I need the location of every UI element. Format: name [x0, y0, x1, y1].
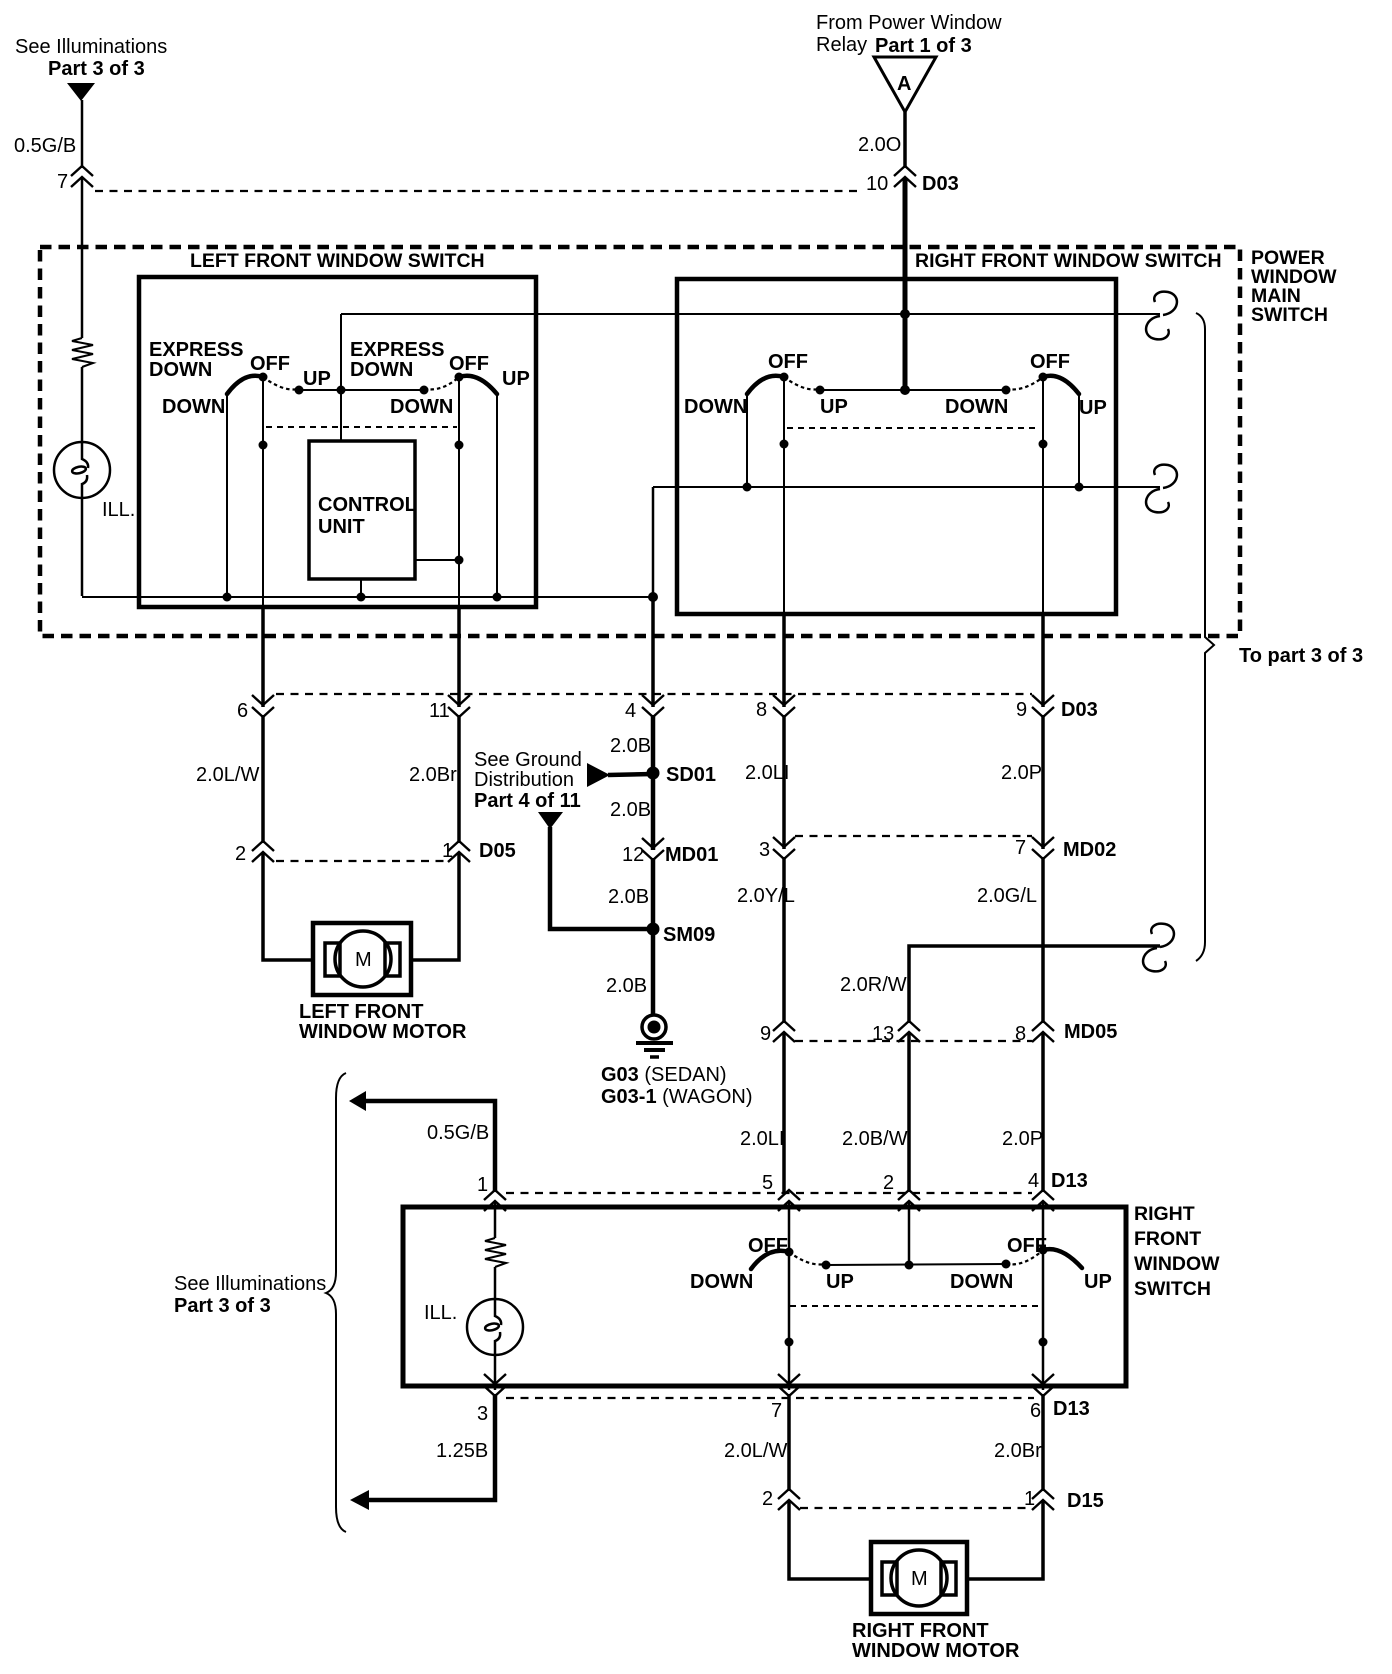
connector pin 1 (lower box) [477, 1174, 506, 1211]
wire 0.5G/B from illuminations arrow [81, 100, 84, 168]
wire between SW1 and SW2 contacts [299, 389, 424, 391]
dashed connector line row 3-7 MD02 [795, 835, 1032, 837]
node DOWN contact SW4 [1002, 386, 1011, 395]
svg-text:WINDOW: WINDOW [1134, 1253, 1220, 1275]
wire pin1 down to right motor [967, 1500, 1043, 1579]
wire 2.0B pin4 to SD01 [651, 715, 656, 773]
svg-text:D13: D13 [1051, 1170, 1088, 1192]
brace see illuminations [326, 1073, 346, 1532]
svg-text:6: 6 [237, 700, 248, 722]
svg-text:WINDOW MOTOR: WINDOW MOTOR [852, 1640, 1020, 1662]
wire from triangle A [903, 112, 907, 168]
svg-text:2.0L/W: 2.0L/W [196, 764, 259, 786]
svg-text:ILL.: ILL. [424, 1302, 457, 1324]
svg-text:DOWN: DOWN [950, 1271, 1013, 1293]
svg-text:ILL.: ILL. [102, 499, 135, 521]
svg-text:DOWN: DOWN [684, 396, 747, 418]
svg-text:11: 11 [429, 700, 450, 722]
dashed connector line row 9-13-8 MD05 [795, 1040, 1032, 1042]
svg-text:DOWN: DOWN [690, 1271, 753, 1293]
svg-text:RIGHT FRONT WINDOW SWITCH: RIGHT FRONT WINDOW SWITCH [915, 250, 1222, 272]
svg-text:2: 2 [883, 1172, 894, 1194]
wire 2.0L/W pin7 to pin2 [787, 1394, 791, 1491]
svg-text:Relay: Relay [816, 34, 867, 56]
wire lamp to ground bus [81, 498, 84, 596]
node DOWN contact SW2 [420, 386, 429, 395]
wire 2.0LI pin8 to pin3 [782, 715, 786, 849]
motor M2 right front window motor [871, 1542, 967, 1614]
wire top bus (express down common) to right box [341, 313, 1160, 315]
svg-text:UP: UP [1084, 1271, 1112, 1293]
switch SW2 labels [350, 339, 530, 418]
right front window switch box (lower) [403, 1207, 1126, 1386]
svg-text:2.0LI: 2.0LI [745, 762, 789, 784]
switch SW6 pivot [1039, 1246, 1048, 1255]
connector pin 8 MD05 [1015, 1021, 1117, 1045]
connector pin 6 [237, 695, 274, 722]
switch SW3 labels [684, 351, 848, 418]
wire 1.25B pin3 to illuminations arrow [368, 1394, 495, 1500]
wire 2.0L/W pin6 to pin2 [261, 715, 265, 843]
wire long vertical to part 3 of 3 [1196, 313, 1214, 961]
switch SW5 pivot [785, 1248, 794, 1257]
svg-text:See Illuminations: See Illuminations [174, 1273, 326, 1295]
connector pin 13 [872, 1021, 920, 1045]
wire between SW3 and SW4 contacts [820, 389, 1006, 391]
dashed connector line row (7 to 10) [95, 190, 858, 192]
svg-text:OFF: OFF [250, 353, 290, 375]
svg-text:8: 8 [756, 699, 767, 721]
connector pin 3 [759, 837, 795, 861]
svg-text:MD05: MD05 [1064, 1021, 1117, 1043]
wire 0.5G/B feed to lower switch [364, 1101, 495, 1192]
label LEFT FRONT WINDOW MOTOR [299, 1001, 467, 1043]
svg-text:DOWN: DOWN [390, 396, 453, 418]
connector pin 2 D15 [762, 1488, 800, 1510]
svg-text:D05: D05 [479, 840, 516, 862]
svg-text:5: 5 [762, 1172, 773, 1194]
svg-text:0.5G/B: 0.5G/B [14, 135, 76, 157]
svg-text:9: 9 [760, 1023, 771, 1045]
svg-text:2.0B: 2.0B [608, 886, 649, 908]
mechanical link dashed SW5-SW6 [790, 1305, 1043, 1307]
wire continuation curl (upper wire to part 3) [1146, 292, 1177, 340]
wire 2.0P MD05 to D13 [1041, 1032, 1045, 1192]
wire from pin 7 down into main switch box [81, 178, 84, 338]
note See Illuminations Part 3 of 3 (top left) [15, 36, 167, 80]
wire continuation curl 2.0R/W [1143, 924, 1174, 972]
wire 2.0B pin12 to SM09 [651, 858, 656, 929]
wire 2.0Br pin11 to pin1 [457, 715, 461, 843]
wire 2.0Br pin6 to pin1 [1041, 1394, 1045, 1491]
svg-text:A: A [897, 73, 911, 95]
ground G03 [636, 1015, 673, 1057]
wire second bus corner down to ground node [652, 487, 655, 598]
switch SW4 dashed throw [1006, 377, 1043, 390]
wire SW1 pivot down to pin 6 [262, 377, 264, 609]
wire 2.0Y/L pin3 to pin9 [782, 857, 786, 1023]
wire pin1 into box to resistor [494, 1201, 497, 1238]
switch SW3 pivot [780, 373, 789, 382]
connector pin 6 D13 [1030, 1374, 1090, 1422]
wire SW2 up-end to ground bus [496, 394, 498, 597]
dashed connector line row 6-11-4-8-9 [276, 693, 1032, 695]
node junction to control unit [337, 386, 346, 395]
wire 2.0G/L MD02 to MD05 [1041, 857, 1045, 1023]
label POWER WINDOW MAIN SWITCH [1251, 247, 1337, 326]
mechanical link dashed SW1-SW2 [266, 426, 457, 428]
node control unit sense [455, 556, 464, 565]
wire pin2 down to right motor [789, 1500, 871, 1579]
svg-text:G03-1 (WAGON): G03-1 (WAGON) [601, 1086, 753, 1108]
svg-text:2.0L/W: 2.0L/W [724, 1440, 787, 1462]
svg-text:2.0P: 2.0P [1002, 1128, 1043, 1150]
wire control unit bottom to ground bus [360, 579, 362, 597]
node second bus left [743, 483, 752, 492]
svg-text:6: 6 [1030, 1400, 1041, 1422]
wire control unit right to SW2 pivot wire [415, 559, 459, 561]
wire SW3 down-end to second bus [746, 394, 748, 487]
svg-text:8: 8 [1015, 1023, 1026, 1045]
node on pivot wire SW3 [780, 440, 789, 449]
off-page arrow illuminations return [350, 1490, 369, 1510]
svg-text:OFF: OFF [768, 351, 808, 373]
dashed connector line row 3-7-6 D13 [506, 1397, 1034, 1399]
svg-text:See Illuminations: See Illuminations [15, 36, 167, 58]
node feed junction lower [905, 1261, 914, 1270]
switch SW2 dashed throw [424, 377, 459, 390]
svg-text:G03 (SEDAN): G03 (SEDAN) [601, 1064, 727, 1086]
wire pin2 down to left motor [263, 852, 313, 960]
wire from top bus down to UP contact junction [340, 314, 342, 441]
node UP contact SW5 [822, 1261, 831, 1270]
svg-text:UP: UP [502, 368, 530, 390]
wire ground distribution arrow to SM09 [550, 827, 651, 929]
wire SW4 up-end to second bus [1078, 394, 1080, 487]
dashed connector line row 2-1 D05 [276, 860, 449, 862]
wire resistor to lamp [494, 1267, 497, 1299]
svg-text:1: 1 [477, 1174, 488, 1196]
svg-text:1.25B: 1.25B [436, 1440, 488, 1462]
svg-text:9: 9 [1016, 699, 1027, 721]
wire 2.0B SM09 to ground [651, 929, 656, 1016]
svg-text:SM09: SM09 [663, 924, 715, 946]
connector pin 7 D13 [771, 1374, 800, 1422]
svg-text:WINDOW MOTOR: WINDOW MOTOR [299, 1021, 467, 1043]
connector pin 8 [756, 695, 795, 721]
switch SW4 labels [945, 351, 1107, 419]
svg-text:2: 2 [762, 1488, 773, 1510]
switch SW2 pivot [455, 373, 464, 382]
wire continuation curl (lower wire to part 3) [1146, 465, 1177, 513]
svg-text:LEFT FRONT WINDOW SWITCH: LEFT FRONT WINDOW SWITCH [190, 250, 485, 272]
svg-text:RIGHT FRONT: RIGHT FRONT [852, 1620, 989, 1642]
svg-text:CONTROL: CONTROL [318, 494, 417, 516]
node second bus right [1075, 483, 1084, 492]
svg-text:2.0LI: 2.0LI [740, 1128, 784, 1150]
node SD01 [647, 764, 717, 786]
svg-text:2.0Y/L: 2.0Y/L [737, 885, 795, 907]
svg-text:D03: D03 [1061, 699, 1098, 721]
wire 2.0LI pin9 to pin5 [782, 1032, 786, 1192]
svg-text:SD01: SD01 [666, 764, 716, 786]
node UP contact SW3 [816, 386, 825, 395]
wire SW2 pivot down to pin 11 [458, 377, 460, 609]
node control unit ground [357, 593, 366, 602]
switch SW1 pivot [259, 373, 268, 382]
note See Illuminations Part 3 of 3 (lower) [174, 1273, 326, 1317]
svg-text:UP: UP [303, 368, 331, 390]
svg-text:UNIT: UNIT [318, 516, 365, 538]
svg-text:3: 3 [759, 839, 770, 861]
wire 2.0B SD01 to pin 12 [651, 773, 656, 850]
svg-text:RIGHT: RIGHT [1134, 1203, 1195, 1225]
node feed on top bus [900, 309, 910, 319]
switch SW1 dashed throw [263, 377, 299, 390]
connector pin 1 D15 [1024, 1488, 1104, 1512]
connector pin 2 (left motor) [235, 841, 274, 865]
resistor (illumination, left switch) [72, 338, 93, 367]
svg-text:From Power Window: From Power Window [816, 12, 1002, 34]
svg-text:12: 12 [622, 844, 644, 866]
svg-text:FRONT: FRONT [1134, 1228, 1201, 1250]
svg-text:DOWN: DOWN [162, 396, 225, 418]
svg-text:2.0R/W: 2.0R/W [840, 974, 907, 996]
svg-text:2.0B: 2.0B [610, 799, 651, 821]
node ground bus to pin 4 wire [648, 592, 658, 602]
wire SW4 pivot down to pin 9 [1042, 377, 1044, 616]
right front window switch section box [677, 279, 1116, 614]
connector pin 11 [429, 695, 470, 722]
mechanical link dashed SW3-SW4 [787, 427, 1039, 429]
connector pin 7 [57, 166, 93, 193]
switch SW5 wiper arc [751, 1251, 789, 1269]
wire feed junction up to pin 2 [908, 1201, 911, 1265]
svg-text:UP: UP [820, 396, 848, 418]
svg-text:MD01: MD01 [665, 844, 718, 866]
off-page arrow to ground distribution [587, 763, 610, 787]
connector pin 4 D13 [1028, 1170, 1088, 1211]
svg-text:7: 7 [1015, 837, 1026, 859]
connector pin 10 D03 [866, 166, 959, 195]
motor M1 left front window motor [313, 923, 411, 995]
wire 2.0P D03 to MD02 [1041, 715, 1045, 849]
node DOWN contact SW6 [1002, 1260, 1011, 1269]
svg-text:2.0B: 2.0B [606, 975, 647, 997]
node SM09 [647, 923, 716, 947]
switch SW1 labels [149, 339, 331, 418]
off-page arrow to ground distribution (SM09) [538, 812, 563, 829]
node on pivot wire SW6 [1039, 1338, 1048, 1347]
svg-text:2.0G/L: 2.0G/L [977, 885, 1037, 907]
svg-text:2.0B/W: 2.0B/W [842, 1128, 908, 1150]
svg-text:OFF: OFF [449, 353, 489, 375]
svg-text:2.0Br: 2.0Br [409, 764, 457, 786]
svg-text:See Ground: See Ground [474, 749, 582, 771]
lamp ILL (left front switch illumination) [54, 442, 110, 498]
power window main switch dashed enclosure [40, 247, 1240, 636]
label RIGHT FRONT WINDOW SWITCH (lower) [1134, 1203, 1220, 1300]
svg-text:MD02: MD02 [1063, 839, 1116, 861]
switch SW2 wiper arc [459, 376, 497, 394]
switch SW6 labels [950, 1235, 1112, 1293]
svg-text:SWITCH: SWITCH [1134, 1278, 1211, 1300]
wire SW1 down-end to ground bus [226, 394, 228, 597]
wire lamp to pin 3 [494, 1355, 497, 1390]
switch SW3 dashed throw [784, 377, 820, 390]
connector pin 12 MD01 [622, 838, 718, 866]
svg-text:2.0B: 2.0B [610, 735, 651, 757]
svg-text:D13: D13 [1053, 1398, 1090, 1420]
svg-text:13: 13 [872, 1023, 894, 1045]
node on pivot wire SW2 [455, 441, 464, 450]
switch SW5 labels [690, 1235, 854, 1293]
svg-text:UP: UP [826, 1271, 854, 1293]
svg-text:10: 10 [866, 173, 888, 195]
svg-text:Part 3 of 3: Part 3 of 3 [48, 58, 145, 80]
label G03 (SEDAN) / G03-1 (WAGON) [601, 1064, 753, 1108]
switch SW6 wiper arc [1043, 1249, 1082, 1268]
wire arrow to node SD01 [608, 774, 653, 775]
svg-text:To part 3 of 3: To part 3 of 3 [1239, 645, 1363, 667]
connector pin 1 D05 [442, 840, 516, 862]
dashed connector line row 1-5-2-4 D13 [506, 1192, 1032, 1194]
wire SW3 pivot down to pin 8 [783, 377, 785, 616]
svg-text:M: M [355, 949, 372, 971]
wire SW6 pivot down to pin 6 [1042, 1201, 1045, 1390]
svg-text:Distribution: Distribution [474, 769, 574, 791]
connector pin 4 [625, 695, 664, 722]
switch SW6 dashed throw [1006, 1250, 1043, 1264]
connector pin 7 MD02 [1015, 837, 1116, 861]
node on pivot wire SW1 [259, 441, 268, 450]
wire feed from pin 10 into right front window switch [903, 178, 908, 390]
wire second bus to part 3 [653, 486, 1160, 488]
svg-text:Part 4 of 11: Part 4 of 11 [474, 790, 581, 812]
svg-text:2.0O: 2.0O [858, 134, 901, 156]
connector pin 5 [762, 1172, 800, 1211]
svg-text:3: 3 [477, 1403, 488, 1425]
svg-text:OFF: OFF [1030, 351, 1070, 373]
switch SW4 pivot [1039, 373, 1048, 382]
left front window switch box [139, 277, 536, 607]
node ground bus right [493, 593, 502, 602]
svg-text:UP: UP [1079, 397, 1107, 419]
svg-text:D03: D03 [922, 173, 959, 195]
off-page arrow to illuminations [67, 83, 95, 101]
svg-text:2: 2 [235, 843, 246, 865]
node feed on switch bus [900, 385, 910, 395]
svg-text:DOWN: DOWN [945, 396, 1008, 418]
node UP contact SW1 [295, 386, 304, 395]
resistor (lower illumination) [485, 1238, 506, 1267]
node ground bus left [223, 593, 232, 602]
svg-text:D15: D15 [1067, 1490, 1104, 1512]
wire between SW5 and SW6 contacts [826, 1264, 1006, 1265]
svg-text:7: 7 [57, 171, 68, 193]
svg-text:SWITCH: SWITCH [1251, 304, 1328, 326]
svg-text:2.0Br: 2.0Br [994, 1440, 1042, 1462]
connector pin 9 D03 [1016, 695, 1098, 721]
svg-text:Part 1 of 3: Part 1 of 3 [875, 35, 972, 57]
switch SW5 dashed throw [789, 1252, 826, 1265]
wire SW5 pivot down to pin 7 [788, 1201, 791, 1390]
connector pin 2 (lower box) [883, 1172, 920, 1211]
svg-text:DOWN: DOWN [350, 359, 413, 381]
node on pivot wire SW5 [785, 1338, 794, 1347]
wire resistor to lamp [81, 367, 84, 442]
wire 2.0R/W to part 3 with curl [909, 946, 1160, 1023]
label RIGHT FRONT WINDOW MOTOR [852, 1620, 1020, 1662]
switch SW4 wiper arc [1043, 376, 1079, 394]
svg-text:EXPRESS: EXPRESS [350, 339, 444, 361]
wire ground bus inside left switch [82, 596, 651, 598]
connector pin 3 (lower box) [477, 1374, 506, 1425]
svg-text:Part 3 of 3: Part 3 of 3 [174, 1295, 271, 1317]
svg-text:EXPRESS: EXPRESS [149, 339, 243, 361]
svg-text:4: 4 [625, 700, 636, 722]
switch SW1 wiper arc [227, 376, 263, 394]
wire 2.0B/W pin13 to pin2 [907, 1032, 911, 1192]
off-page arrow illuminations (lower feed) [349, 1091, 366, 1111]
control unit U1 [309, 441, 417, 579]
connector pin 9 (lower) [760, 1021, 795, 1045]
wire pin1 down to left motor [411, 852, 459, 960]
svg-text:DOWN: DOWN [149, 359, 212, 381]
svg-text:0.5G/B: 0.5G/B [427, 1122, 489, 1144]
svg-text:OFF: OFF [1007, 1235, 1047, 1257]
off-page triangle A (from power window relay) [874, 57, 936, 112]
svg-text:LEFT FRONT: LEFT FRONT [299, 1001, 423, 1023]
dashed connector line row 2-1 D15 [800, 1507, 1032, 1509]
note From Power Window Relay Part 1 of 3 [816, 12, 1002, 57]
switch SW3 wiper arc [747, 376, 784, 394]
svg-text:2.0P: 2.0P [1001, 762, 1042, 784]
note See Ground Distribution Part 4 of 11 [474, 749, 582, 812]
lamp ILL (lower) [467, 1299, 523, 1355]
svg-text:4: 4 [1028, 1170, 1039, 1192]
node on pivot wire SW4 [1039, 440, 1048, 449]
svg-text:M: M [911, 1568, 928, 1590]
svg-text:7: 7 [771, 1400, 782, 1422]
